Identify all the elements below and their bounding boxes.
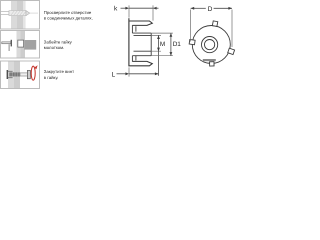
icon3 screw head slot [28, 71, 30, 79]
dimension L left arrow [125, 72, 129, 75]
front view: flange circle [192, 26, 230, 64]
icon2 hammer block [24, 40, 36, 50]
icon3 nut prongs [8, 71, 13, 77]
icon3 screw head [27, 71, 30, 79]
svg-text:k: k [114, 6, 118, 13]
dimension K leader [121, 7, 127, 9]
dimension K left arrow [125, 7, 129, 10]
icon2 nut prong [8, 44, 10, 51]
D1 top arrow [170, 33, 173, 37]
svg-text:L: L [112, 71, 116, 78]
svg-text:D: D [208, 6, 213, 13]
K extension line left [128, 5, 130, 17]
svg-text:в соединяемых деталях.: в соединяемых деталях. [44, 16, 93, 21]
icon2 nut barrel lines [2, 42, 11, 44]
dimension K right arrow [153, 7, 157, 10]
front view: prong tab left [189, 39, 195, 44]
svg-text:Просверлите отверстие: Просверлите отверстие [44, 10, 92, 15]
icon3 red rotation arrow [31, 66, 35, 80]
front view: prong tab right [228, 48, 235, 54]
D1 dimension line [170, 33, 172, 56]
dimension D right arrow [228, 7, 232, 10]
icon box 3 frame [1, 61, 40, 89]
M dimension line / L extension line [158, 35, 160, 75]
icon3 red arrowhead [34, 65, 37, 69]
side view: barrel walls [132, 33, 151, 56]
icon1 board panel A [11, 1, 17, 29]
side view: top prong [129, 21, 152, 25]
dimension D left arrow [191, 7, 195, 10]
icon2 board panel B [21, 31, 26, 58]
dimension L leader [117, 73, 126, 75]
icon1 board panel C [23, 1, 26, 29]
icon1 drill shank [1, 11, 9, 16]
front view: barrel circle [202, 37, 218, 53]
dimension K line [129, 7, 153, 9]
front view: thread hole circle [205, 40, 215, 50]
icon1 drill flutes [9, 11, 26, 16]
icon3 board panel B [14, 62, 20, 89]
M top arrow [157, 35, 160, 39]
D1 bottom arrow [170, 52, 173, 56]
icon1 drill pilot line [30, 12, 38, 14]
D extension line left [190, 10, 192, 42]
icon1 drill flute hatch [11, 11, 27, 16]
front view: prong tab top [212, 21, 217, 27]
front view: bottom prong shading bar [203, 59, 216, 61]
dimension L line [129, 73, 159, 75]
side view: bottom bend walls [132, 56, 136, 62]
M extension ticks [151, 35, 161, 51]
side view: bottom prong [129, 61, 152, 65]
svg-text:молотком.: молотком. [44, 45, 65, 50]
L extension line left [128, 67, 130, 76]
icon1 drill tip [26, 11, 30, 16]
icon box 2 frame [1, 31, 40, 59]
svg-text:M: M [160, 41, 165, 48]
D extension line right [231, 10, 233, 48]
icon3 screw shaft [20, 73, 27, 76]
svg-text:Забейте гайку: Забейте гайку [44, 39, 73, 44]
side view: top bend walls [132, 25, 136, 33]
icon3 board panel A [8, 62, 14, 89]
dimension D line right [214, 7, 232, 9]
dimension D line left [191, 7, 206, 9]
M bottom arrow [157, 48, 160, 52]
icon3 nut flange [7, 70, 9, 79]
icon3 screw thread section [9, 72, 20, 76]
svg-text:в гайку.: в гайку. [44, 75, 59, 80]
side view: flange [128, 18, 130, 66]
svg-text:Закрутите винт: Закрутите винт [44, 69, 74, 74]
icon1 board panel B [17, 1, 23, 29]
icon box 1 frame [1, 1, 40, 30]
icon2 board panel A [17, 31, 21, 58]
dimension K right tail [153, 7, 159, 9]
icon2 nut flange [11, 40, 12, 47]
D1 extension lines [151, 33, 173, 56]
dimension L right arrow [155, 72, 159, 75]
K extension line right [152, 5, 154, 20]
svg-text:D1: D1 [173, 41, 182, 48]
icon3 screw threads [10, 72, 19, 76]
front view: prong tab bottom [210, 62, 215, 66]
icon2 hole in board [18, 40, 24, 47]
